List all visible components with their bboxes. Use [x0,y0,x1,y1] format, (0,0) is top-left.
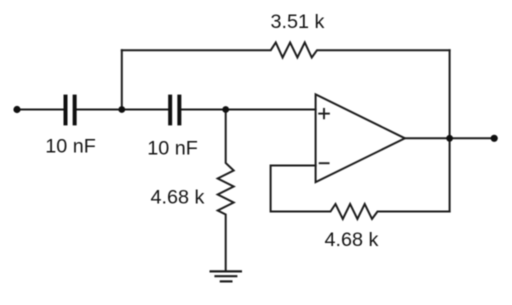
svg-text:10 nF: 10 nF [45,136,96,158]
svg-text:3.51 k: 3.51 k [271,11,325,33]
svg-text:10 nF: 10 nF [147,138,198,160]
svg-text:4.68 k: 4.68 k [325,229,379,251]
svg-text:4.68 k: 4.68 k [150,186,204,208]
